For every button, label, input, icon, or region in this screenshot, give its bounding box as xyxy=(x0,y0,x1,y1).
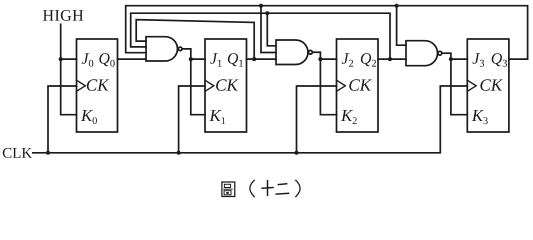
label J1 xyxy=(210,53,221,66)
clock chevron FF2 xyxy=(337,80,346,91)
caption glyph two xyxy=(276,184,288,194)
nand-gate G1 xyxy=(146,37,177,61)
node CLK-FF0 junction xyxy=(46,151,50,155)
label Q3 xyxy=(492,53,507,67)
label CK3 xyxy=(480,79,503,91)
flip-flop FF2 box xyxy=(337,39,379,132)
flip-flop FF3 box xyxy=(467,39,509,132)
label HIGH xyxy=(43,10,83,21)
caption glyph ten xyxy=(262,181,273,196)
wire Q2 to gate G3 input and up to bus B feeding G1 and G2 xyxy=(131,13,406,59)
wire CLK branch FF2 xyxy=(297,86,337,153)
node HIGH-J0 junction xyxy=(59,57,63,61)
bubble G2 xyxy=(309,50,313,54)
node G3-J3 junction xyxy=(449,57,453,61)
label J2 xyxy=(342,53,353,66)
node Q1 junction xyxy=(252,57,256,61)
label K0 xyxy=(81,110,97,124)
label CK2 xyxy=(349,79,372,91)
label Q1 xyxy=(228,53,243,67)
wire G3 output to J3/K3 xyxy=(442,53,468,114)
node G2-J2 junction xyxy=(318,57,322,61)
caption figure-12 glyph tu xyxy=(222,182,235,197)
nand-gate G2 xyxy=(276,40,308,65)
label CLK xyxy=(3,148,32,158)
wire G1 output to J1/K1 xyxy=(182,49,205,115)
wire Q3 feedback bus A to G1 input xyxy=(126,6,528,59)
node bus A junction 2 xyxy=(395,4,399,8)
node bus A junction 1 xyxy=(259,4,263,8)
caption right paren xyxy=(296,180,300,196)
clock chevron FF0 xyxy=(77,80,86,91)
label K3 xyxy=(472,110,488,124)
label K1 xyxy=(209,110,225,124)
node G1-J1 junction xyxy=(189,57,193,61)
wire Q0 to gate G1 input xyxy=(118,58,147,60)
bubble G1 xyxy=(178,47,182,51)
wire CLK branch FF1 xyxy=(179,86,205,153)
label CK1 xyxy=(216,79,239,91)
label Q0 xyxy=(99,53,114,67)
label J3 xyxy=(473,53,485,66)
label Q2 xyxy=(361,53,376,67)
wire CLK branch FF0 xyxy=(48,86,77,153)
label J0 xyxy=(82,53,94,66)
flip-flop FF0 box xyxy=(77,39,118,132)
nand-gate G3 xyxy=(406,41,437,66)
wire G2 output to J2/K2 xyxy=(312,52,336,114)
wire CLK line to all CK inputs xyxy=(33,86,468,153)
wire Q1 to gate G2 input and up to bus C feeding G1 xyxy=(136,20,276,60)
wire bus A branch to G2 middle input xyxy=(261,6,276,53)
node Q2 junction xyxy=(388,57,392,61)
node CLK-FF2 junction xyxy=(295,151,299,155)
wire HIGH vertical to J0/K0 xyxy=(61,24,77,114)
caption left paren xyxy=(250,180,254,196)
clock chevron FF1 xyxy=(205,80,214,91)
bubble G3 xyxy=(438,51,442,55)
node bus B junction xyxy=(265,11,269,15)
flip-flop FF1 box xyxy=(205,39,247,132)
wire bus A branch to G3 top input xyxy=(397,6,406,46)
clock chevron FF3 xyxy=(467,80,476,91)
wire bus B branch to G2 top input xyxy=(267,13,276,46)
node CLK-FF1 junction xyxy=(177,151,181,155)
label K2 xyxy=(341,110,357,124)
label CK0 xyxy=(87,79,110,91)
